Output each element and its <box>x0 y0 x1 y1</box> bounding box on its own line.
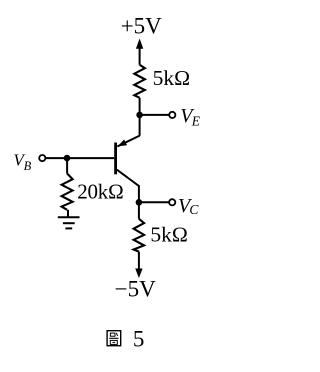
resistor R1 <box>134 65 145 98</box>
wire node VC to R3 <box>138 202 140 219</box>
terminal VC open circle <box>169 199 175 205</box>
terminal VE open circle <box>169 112 175 118</box>
wire R1 to emitter <box>139 98 141 136</box>
node VC junction dot <box>136 199 143 206</box>
ground <box>58 217 80 228</box>
wire node B to R2 <box>66 158 68 173</box>
wire node VC to terminal <box>139 201 169 203</box>
label VE <box>180 105 201 128</box>
supply +5V label <box>121 14 162 39</box>
svg-text:E: E <box>191 114 201 129</box>
base bar <box>114 143 117 175</box>
svg-text:5: 5 <box>133 326 145 351</box>
svg-text:5kΩ: 5kΩ <box>153 66 190 90</box>
node B junction dot <box>64 155 71 162</box>
caption 圖 5 <box>107 326 144 351</box>
arrow to −5V <box>135 269 142 279</box>
svg-text:C: C <box>189 202 199 217</box>
resistor R2 <box>62 174 73 210</box>
wire VB to base <box>45 157 114 159</box>
svg-text:20kΩ: 20kΩ <box>77 179 123 203</box>
resistor R3 <box>134 219 145 252</box>
wire node VE to terminal <box>140 114 170 116</box>
label VB <box>13 150 31 173</box>
svg-text:+5V: +5V <box>121 14 162 39</box>
wire R2 to ground <box>67 210 69 217</box>
label 20kΩ (R2) <box>77 179 123 203</box>
svg-text:5kΩ: 5kΩ <box>150 222 187 246</box>
collector wire <box>117 170 139 203</box>
transistor Q1 (PNP) <box>116 136 140 203</box>
svg-text:B: B <box>24 159 32 173</box>
svg-text:−5V: −5V <box>115 277 156 302</box>
label 5kΩ (R3) <box>150 222 187 246</box>
wire R3 to −5V arrow <box>138 252 140 270</box>
label VC <box>178 195 199 217</box>
arrow to +5V <box>136 39 143 65</box>
emitter wire with arrow into base <box>117 136 139 147</box>
terminal VB open circle <box>39 155 45 161</box>
node VE junction dot <box>136 112 143 119</box>
supply −5V label <box>115 277 156 302</box>
label 5kΩ (R1) <box>153 66 190 90</box>
